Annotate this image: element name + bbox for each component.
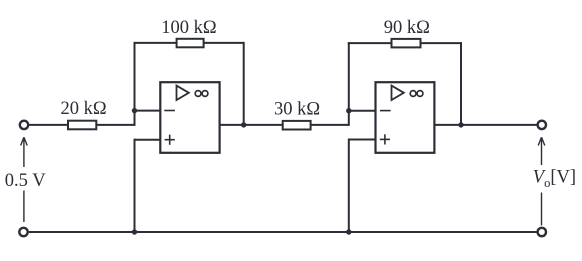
wire feedback 2 top right xyxy=(421,42,462,44)
wire op-amp 2 output to output terminal xyxy=(434,124,536,126)
svg-text:Vo[V]: Vo[V] xyxy=(533,168,576,191)
bottom left terminal xyxy=(19,228,27,236)
node B (op-amp 1 output junction) xyxy=(241,122,246,127)
label Vo[V] xyxy=(533,168,576,191)
wire plus input down to bottom rail xyxy=(134,139,136,232)
wire feedback 2 right vertical down to output node xyxy=(460,42,462,125)
wire op-amp 2 plus input xyxy=(349,139,376,141)
wire input terminal to R1 xyxy=(29,124,68,126)
label 20 kΩ xyxy=(61,99,107,119)
resistor R2 100 kΩ (feedback) xyxy=(177,39,204,48)
wire feedback left vertical (node A up) xyxy=(134,42,136,111)
wire R1 to inverting node xyxy=(96,111,134,126)
label 90 kΩ xyxy=(384,18,430,38)
node D (op-amp 2 output junction) xyxy=(458,122,463,127)
node A (op-amp 1 inverting input junction) xyxy=(132,108,137,113)
wire feedback 2 left vertical xyxy=(348,42,350,111)
resistor R1 20 kΩ xyxy=(68,121,96,130)
svg-text:0.5 V: 0.5 V xyxy=(5,171,46,191)
op-amp U2 xyxy=(376,82,435,153)
node C (op-amp 2 inverting input junction) xyxy=(346,108,351,113)
junction dot bottom rail left xyxy=(132,229,137,234)
op-amp U1 xyxy=(160,82,219,153)
wire feedback right vertical down to output node xyxy=(243,42,245,125)
wire R3 to inverting node 2 xyxy=(311,111,349,126)
svg-text:30 kΩ: 30 kΩ xyxy=(274,100,320,120)
wire op-amp 1 plus input xyxy=(135,139,161,141)
bottom right terminal xyxy=(538,228,546,236)
resistor R3 30 kΩ xyxy=(283,121,311,130)
wire feedback 2 top left xyxy=(348,42,392,44)
output arrow (Vo, pointing up) xyxy=(538,137,545,225)
wire op-amp 1 output to R3 xyxy=(220,124,283,126)
input terminal (top left) xyxy=(20,121,28,129)
svg-text:100 kΩ: 100 kΩ xyxy=(161,18,216,38)
wire plus input 2 down to bottom rail xyxy=(348,139,350,233)
label 30 kΩ xyxy=(274,100,320,120)
wire node C to op-amp 2 minus input xyxy=(349,110,376,112)
resistor R4 90 kΩ (feedback) xyxy=(392,39,421,48)
wire feedback top left xyxy=(134,42,177,44)
wire node A to op-amp 1 minus input xyxy=(135,110,161,112)
label 0.5 V xyxy=(5,171,46,191)
label 100 kΩ xyxy=(161,18,216,38)
output terminal (top right) xyxy=(538,121,546,129)
bottom rail wire xyxy=(29,231,537,233)
source arrow (0.5 V, pointing up) xyxy=(21,137,28,222)
junction dot bottom rail right xyxy=(346,229,351,234)
wire feedback top right xyxy=(204,42,244,44)
svg-text:20 kΩ: 20 kΩ xyxy=(61,99,107,119)
svg-text:90 kΩ: 90 kΩ xyxy=(384,18,430,38)
